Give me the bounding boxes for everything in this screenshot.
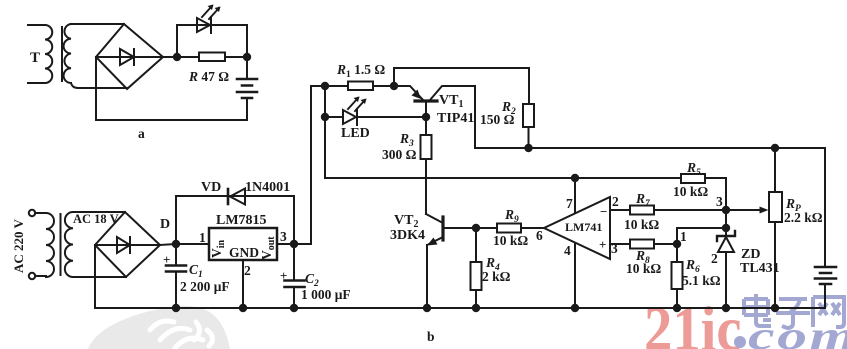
svg-text:com: com: [748, 313, 847, 349]
svg-text:+: +: [163, 252, 170, 267]
wiper arrow wire to RP: [726, 207, 769, 214]
op-amp pin 4 wire: [574, 243, 576, 308]
wire secondary bottom to bridge b: [73, 276, 126, 278]
node 1 junction: [673, 240, 681, 248]
node LED left: [321, 113, 329, 121]
node battery top a: [243, 53, 251, 61]
node VT2 base / R9 R4 junction: [472, 224, 480, 232]
svg-text:R 47 Ω: R 47 Ω: [188, 69, 229, 84]
transformer T core: [61, 27, 63, 81]
node TL431 anode ground: [722, 304, 730, 312]
wire LED b branch: [325, 86, 343, 117]
AC input terminal top: [29, 210, 35, 216]
potentiometer RP: [769, 148, 782, 308]
svg-text:2: 2: [244, 263, 251, 278]
ground bus wire: [95, 307, 825, 309]
resistor R9: [476, 224, 544, 233]
node VT1 emitter: [390, 82, 398, 90]
svg-text:2 200 μF: 2 200 μF: [180, 279, 230, 294]
node D: [172, 240, 180, 248]
node TL431 cathode tap: [722, 224, 730, 232]
svg-text:10 kΩ: 10 kΩ: [626, 261, 661, 276]
node Vout: [290, 240, 298, 248]
resistor R8: [610, 240, 677, 249]
svg-text:6: 6: [536, 228, 543, 243]
resistor R6: [672, 244, 683, 308]
transformer b primary winding: [46, 213, 54, 277]
svg-text:TL431: TL431: [740, 261, 780, 276]
node C1 ground: [172, 304, 180, 312]
svg-text:1N4001: 1N4001: [245, 180, 290, 195]
AC input terminal bottom: [29, 273, 35, 279]
node pin7 tap: [571, 174, 579, 182]
transistor VT1 TIP41: [394, 86, 475, 148]
node VT1 base: [422, 113, 430, 121]
diode VD 1N4001: [228, 189, 245, 205]
svg-text:−: −: [600, 204, 607, 219]
resistor R 47ohm: [177, 53, 247, 62]
svg-text:b: b: [427, 329, 435, 344]
wire node1 jog to TL431 cathode: [677, 228, 726, 244]
svg-text:T: T: [30, 50, 40, 66]
node pin4 ground: [571, 304, 579, 312]
wire VD branch: [176, 196, 294, 244]
transformer b secondary winding: [65, 212, 73, 277]
LED a: [197, 5, 221, 34]
wire secondary bottom to bridge: [71, 83, 127, 88]
node RP bottom ground: [771, 304, 779, 312]
svg-text:LM741: LM741: [565, 220, 602, 234]
svg-text:1: 1: [199, 230, 206, 245]
wire riser output to R1: [311, 86, 348, 244]
regulator output pin 3 wire: [277, 243, 311, 245]
battery b: [815, 148, 836, 308]
resistor R7: [610, 206, 726, 215]
node bridge output: [173, 53, 181, 61]
transistor VT2 3DK4: [426, 214, 476, 308]
node R1 left LED tap: [321, 82, 329, 90]
resistor R3: [421, 117, 432, 214]
svg-text:150 Ω: 150 Ω: [480, 112, 515, 127]
svg-text:1 000 μF: 1 000 μF: [301, 287, 351, 302]
svg-text:1: 1: [680, 229, 687, 244]
svg-text:7: 7: [566, 196, 573, 211]
wire LED node down to op-amp supply line: [325, 117, 681, 178]
node GND pin ground: [239, 304, 247, 312]
op-amp pin 7 wire: [574, 178, 576, 213]
svg-text:GND: GND: [229, 245, 259, 260]
svg-text:3DK4: 3DK4: [390, 228, 425, 243]
svg-text:VD: VD: [201, 180, 221, 195]
svg-text:2: 2: [612, 194, 619, 209]
LED b: [343, 97, 426, 126]
node R2 bottom on output bus: [524, 144, 532, 152]
wire terminals to primary: [35, 213, 46, 276]
transformer T secondary winding: [64, 24, 71, 83]
svg-text:D: D: [160, 217, 170, 232]
node R5-R7 junction: [722, 206, 730, 214]
bridge rectifier b: [95, 212, 160, 277]
svg-text:5.1 kΩ: 5.1 kΩ: [682, 273, 721, 288]
wire bridge b output to regulator: [160, 244, 209, 245]
wire bridge b left corner down to ground bus: [94, 245, 96, 308]
node RP top on output bus: [771, 144, 779, 152]
transformer b core: [60, 214, 62, 275]
regulator GND pin 2 wire: [242, 260, 244, 308]
zener ZD TL431: [717, 210, 735, 308]
regulator U LM7815 box: [209, 228, 277, 260]
wire secondary top to bridge: [71, 23, 124, 25]
svg-text:+: +: [280, 268, 287, 283]
svg-text:a: a: [138, 126, 145, 141]
svg-text:TIP41: TIP41: [437, 111, 474, 126]
svg-text:+: +: [599, 237, 606, 252]
bridge rectifier a: [96, 24, 177, 89]
svg-text:4: 4: [564, 243, 571, 258]
svg-text:ZD: ZD: [741, 247, 760, 262]
svg-text:3: 3: [280, 229, 287, 244]
output bus wire: [475, 147, 825, 149]
op-amp U LM741: [544, 197, 610, 259]
wire secondary top to bridge b: [73, 211, 125, 213]
svg-text:3: 3: [611, 241, 618, 256]
LED a branch wire: [177, 25, 247, 57]
battery a: [237, 57, 257, 120]
svg-text:LM7815: LM7815: [216, 213, 267, 228]
node C2 ground: [290, 304, 298, 312]
resistor R4: [471, 228, 482, 308]
capacitor C2: [285, 244, 305, 308]
node R6 ground: [673, 304, 681, 312]
resistor R5: [681, 174, 726, 210]
svg-text:2 kΩ: 2 kΩ: [482, 269, 511, 284]
svg-text:2.2 kΩ: 2.2 kΩ: [784, 210, 823, 225]
resistor R2: [523, 104, 534, 148]
resistor R1: [348, 82, 394, 91]
transformer T primary winding: [28, 25, 52, 83]
svg-text:AC 18 V: AC 18 V: [73, 212, 119, 226]
svg-text:3: 3: [716, 194, 723, 209]
node VT2 emitter ground: [423, 304, 431, 312]
node R4 ground: [472, 304, 480, 312]
wire bridge left corner down: [95, 57, 97, 120]
wire emitter node up over to R2: [394, 68, 529, 104]
svg-text:AC 220 V: AC 220 V: [11, 218, 26, 273]
svg-text:LED: LED: [341, 126, 370, 141]
svg-text:2: 2: [711, 251, 718, 266]
svg-text:10 kΩ: 10 kΩ: [624, 217, 659, 232]
svg-text:10 kΩ: 10 kΩ: [493, 233, 528, 248]
svg-text:300 Ω: 300 Ω: [382, 147, 417, 162]
wire bottom a: [96, 119, 247, 121]
capacitor C1: [166, 244, 186, 308]
svg-text:10 kΩ: 10 kΩ: [673, 184, 708, 199]
WATERMARKS: [88, 294, 847, 349]
